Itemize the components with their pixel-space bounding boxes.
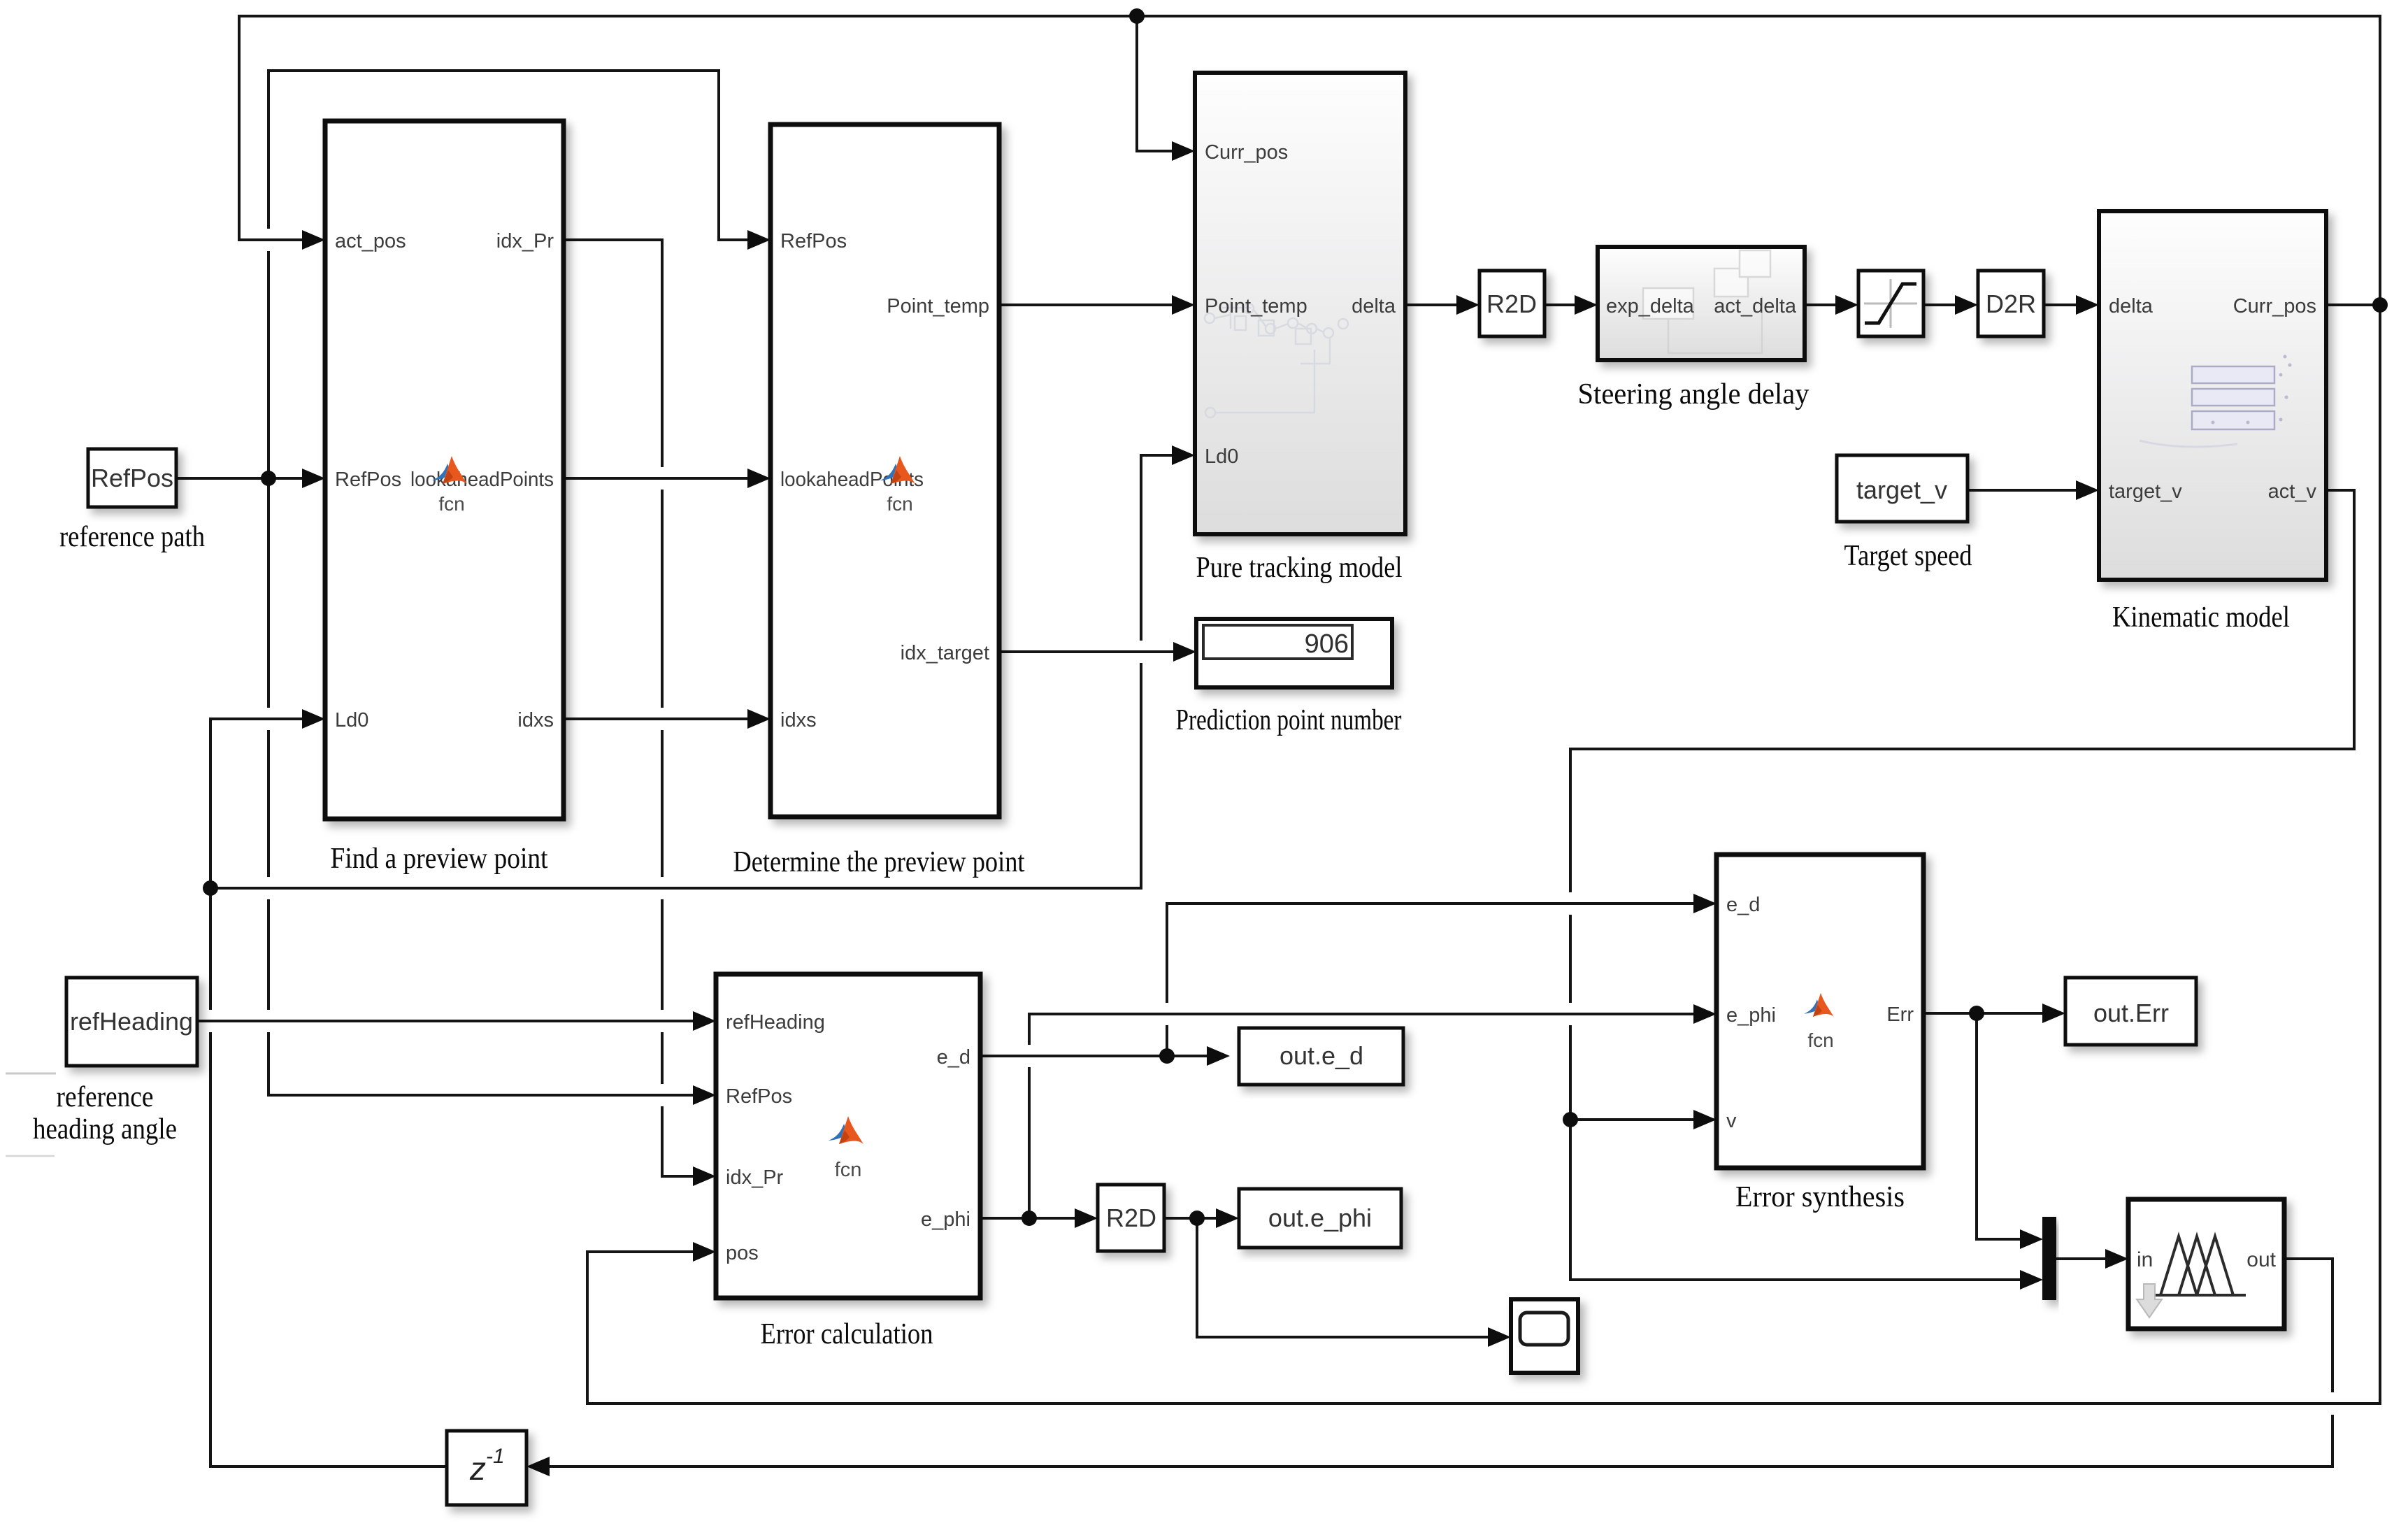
svg-text:target_v: target_v <box>2109 480 2182 503</box>
svg-text:idx_Pr: idx_Pr <box>496 230 554 252</box>
svg-text:heading angle: heading angle <box>33 1113 177 1145</box>
svg-text:lookaheadPoints: lookaheadPoints <box>410 469 554 491</box>
arrowhead into Mux input 1 <box>2020 1229 2043 1249</box>
stray gray line 1 <box>6 1073 56 1075</box>
block Error synthesis <box>1717 855 1923 1168</box>
stray gray line 2 <box>6 1155 55 1157</box>
arrowhead into z-1 <box>526 1457 550 1476</box>
wire lookaheadPoints Find to Determine <box>564 477 753 480</box>
wire Mux to Fuzzy controller <box>2056 1257 2111 1260</box>
block R2D 2 <box>1098 1185 1164 1251</box>
svg-text:idxs: idxs <box>517 709 554 731</box>
arrowhead into Kinematic target_v <box>2076 480 2099 500</box>
svg-text:v: v <box>1726 1110 1737 1132</box>
wire z-1 output to Find Ld0 <box>210 719 447 1466</box>
svg-text:Error synthesis: Error synthesis <box>1735 1181 1905 1213</box>
arrowhead into Find Ld0 <box>302 709 325 729</box>
wire Fuzzy out feedback to z-1 <box>544 1259 2332 1466</box>
svg-text:pos: pos <box>726 1242 759 1264</box>
block refHeading source <box>66 978 197 1066</box>
svg-text:out: out <box>2246 1248 2276 1271</box>
svg-text:idx_target: idx_target <box>901 642 989 664</box>
scope inner screen <box>1520 1313 1568 1345</box>
block out.e_d <box>1239 1028 1403 1085</box>
arrowhead into Display <box>1173 642 1196 662</box>
wire act_v feedback from Kinematic to v and mux <box>1570 490 2354 1280</box>
junction Ld0 branch <box>203 880 218 896</box>
svg-text:Ld0: Ld0 <box>335 709 368 731</box>
wire e_d to out.e_d <box>980 1055 1212 1057</box>
arrowhead into Steering angle delay <box>1575 295 1598 315</box>
svg-text:RefPos: RefPos <box>780 230 847 252</box>
wire e_d branch up to Error synthesis e_d <box>1167 904 1699 1056</box>
block Display prediction point number <box>1196 619 1392 687</box>
arrowhead into Error synthesis e_d <box>1693 894 1717 913</box>
arrowhead into Fuzzy in <box>2105 1249 2128 1269</box>
wire Saturation to D2R <box>1923 304 1961 306</box>
svg-text:fcn: fcn <box>835 1159 862 1181</box>
wire delta Pure tracking to R2D <box>1405 304 1462 306</box>
arrowhead into D2R <box>1955 295 1978 315</box>
junction e_phi branch <box>1022 1211 1037 1226</box>
junction Err branch <box>1969 1006 1984 1021</box>
svg-text:Pure tracking model: Pure tracking model <box>1196 552 1403 584</box>
block target_v source <box>1837 455 1968 522</box>
arrowhead into Error calculation refHeading <box>693 1011 716 1031</box>
wire crossing gaps <box>265 229 272 251</box>
ghost subsystem sketch Pure tracking <box>1205 301 1348 417</box>
wire R2D to out.e_phi <box>1164 1217 1221 1220</box>
svg-text:refHeading: refHeading <box>726 1011 825 1034</box>
wire Point_temp Determine to Pure tracking <box>999 304 1177 306</box>
svg-text:out.Err: out.Err <box>2093 999 2169 1027</box>
svg-text:Determine the preview point: Determine the preview point <box>733 846 1025 878</box>
arrowhead into Error calculation pos <box>693 1242 716 1262</box>
block out.Err <box>2065 978 2196 1045</box>
svg-text:Ld0: Ld0 <box>1205 445 1238 468</box>
arrowhead into out.Err <box>2042 1004 2065 1023</box>
svg-text:Err: Err <box>1886 1004 1914 1026</box>
svg-text:fcn: fcn <box>1807 1029 1833 1051</box>
block Fuzzy logic controller <box>2128 1199 2284 1329</box>
wire e_phi to R2D <box>980 1217 1080 1220</box>
arrowhead into Error synthesis v <box>1693 1110 1717 1129</box>
wire idx_target Determine to Display <box>999 650 1179 653</box>
fuzzy membership triangles <box>2155 1236 2246 1295</box>
svg-text:idx_Pr: idx_Pr <box>726 1166 784 1189</box>
ghost subsystem sketch Kinematic <box>2192 366 2274 429</box>
block Saturation <box>1858 271 1923 336</box>
svg-text:R2D: R2D <box>1106 1204 1156 1232</box>
block Kinematic model <box>2099 211 2326 580</box>
svg-text:Kinematic model: Kinematic model <box>2112 601 2290 634</box>
block Scope <box>1511 1299 1578 1373</box>
arrowhead into Pure tracking Curr_pos <box>1172 141 1195 161</box>
arrowhead into R2D 2 <box>1075 1208 1098 1228</box>
wire Err to out.Err <box>1923 1012 2048 1015</box>
svg-text:R2D: R2D <box>1486 290 1537 318</box>
block Mux bar <box>2043 1218 2056 1299</box>
arrowhead into Pure tracking Point_temp <box>1172 295 1195 315</box>
arrowhead into Scope <box>1488 1327 1511 1347</box>
svg-text:RefPos: RefPos <box>91 464 173 492</box>
svg-text:idxs: idxs <box>780 709 817 731</box>
arrowhead into Error calculation RefPos <box>693 1085 716 1105</box>
junction act_v to v <box>1563 1112 1578 1127</box>
svg-text:Point_temp: Point_temp <box>1205 295 1307 317</box>
wire Mux output stub <box>2056 1257 2111 1260</box>
block z-1 unit delay <box>447 1431 526 1505</box>
wire RefPos branch up to Determine RefPos <box>268 71 753 478</box>
wire Curr_pos feedback down right side to pos input <box>587 305 2380 1404</box>
fcn logo Determine <box>880 456 915 484</box>
wire D2R to Kinematic delta <box>2044 304 2081 306</box>
ghost subsystem sketch Steering delay <box>1643 250 1770 353</box>
svg-text:Point_temp: Point_temp <box>887 295 989 317</box>
wire feedback Curr_pos top loop (Kinematic Curr_pos to act_pos) <box>239 16 2380 305</box>
arrowhead into Determine RefPos <box>747 230 771 250</box>
wire branch e_phi deg down to Scope <box>1197 1218 1493 1337</box>
arrowhead into out.e_d <box>1207 1046 1230 1066</box>
svg-text:delta: delta <box>1352 295 1396 317</box>
svg-text:in: in <box>2137 1248 2153 1271</box>
svg-text:RefPos: RefPos <box>335 469 401 491</box>
svg-text:e_d: e_d <box>937 1046 970 1069</box>
junction e_d branch <box>1159 1048 1175 1064</box>
arrowhead into Kinematic delta <box>2076 295 2099 315</box>
svg-text:act_delta: act_delta <box>1714 295 1797 317</box>
wire Steering angle delay to Saturation <box>1805 304 1841 306</box>
fcn logo Find <box>432 456 467 484</box>
svg-text:refHeading: refHeading <box>70 1007 193 1036</box>
wire branch act_v to Error synthesis v input <box>1570 1118 1699 1121</box>
svg-text:out.e_phi: out.e_phi <box>1268 1204 1372 1232</box>
svg-text:out.e_d: out.e_d <box>1280 1041 1363 1070</box>
arrowhead into Saturation <box>1835 295 1858 315</box>
wire crossing horizontals <box>252 238 285 241</box>
block R2D rad to deg <box>1479 271 1545 336</box>
svg-text:act_v: act_v <box>2268 480 2317 503</box>
svg-text:Curr_pos: Curr_pos <box>1205 141 1288 164</box>
display cursor <box>1352 628 1354 656</box>
svg-text:Target speed: Target speed <box>1844 540 1972 572</box>
arrowhead into R2D <box>1456 295 1479 315</box>
svg-text:e_phi: e_phi <box>921 1208 970 1231</box>
svg-text:exp_delta: exp_delta <box>1606 295 1695 317</box>
svg-text:RefPos: RefPos <box>726 1085 792 1108</box>
svg-text:D2R: D2R <box>1986 290 2036 318</box>
wire RefPos source to Find RefPos <box>176 477 308 480</box>
wire RefPos branch down to Error calculation RefPos <box>268 478 698 1095</box>
junction Curr_pos output <box>2372 297 2388 313</box>
svg-text:delta: delta <box>2109 295 2153 317</box>
arrowhead into Determine idxs <box>747 709 771 729</box>
svg-text:Steering angle delay: Steering angle delay <box>1578 378 1809 410</box>
svg-text:Curr_pos: Curr_pos <box>2233 295 2316 317</box>
junction e_phi deg branch <box>1189 1211 1205 1226</box>
block Error calculation <box>716 974 980 1298</box>
arrowhead into Find act_pos <box>302 230 325 250</box>
block D2R deg to rad <box>1978 271 2044 336</box>
wire branch top loop down to Pure tracking Curr_pos <box>1137 16 1177 151</box>
junction RefPos branch <box>261 471 276 486</box>
svg-text:Error calculation: Error calculation <box>761 1318 933 1350</box>
fcn logo Error synthesis <box>1804 993 1834 1017</box>
block Pure tracking model <box>1195 73 1405 534</box>
wire e_phi branch up to Error synthesis e_phi <box>1029 1014 1699 1218</box>
block Steering angle delay <box>1598 247 1805 360</box>
svg-text:e_d: e_d <box>1726 894 1760 916</box>
arrowhead into Error synthesis e_phi <box>1693 1004 1717 1024</box>
wire refHeading to Error calculation <box>197 1020 698 1022</box>
block out.e_phi <box>1239 1189 1401 1248</box>
fuzzy gray down arrow <box>2137 1284 2162 1318</box>
svg-text:z: z <box>469 1450 486 1487</box>
wire branch Err down to Mux input 1 <box>1977 1013 2026 1239</box>
arrowhead into Determine lookaheadPoints <box>747 469 771 488</box>
block Find a preview point <box>325 121 564 819</box>
arrowhead into Find RefPos <box>302 469 325 488</box>
arrowhead into Pure tracking Ld0 <box>1172 445 1195 465</box>
svg-text:reference path: reference path <box>59 521 205 553</box>
svg-text:Find a preview point: Find a preview point <box>331 843 548 875</box>
svg-text:-1: -1 <box>486 1445 505 1468</box>
wire idx_Pr from Find to Error calculation idx_Pr <box>564 240 698 1176</box>
wire target_v to Kinematic <box>1968 489 2081 492</box>
display inner box <box>1203 625 1352 659</box>
svg-text:reference: reference <box>57 1081 154 1113</box>
svg-text:906: 906 <box>1305 629 1349 659</box>
wire idxs Find to Determine <box>564 717 753 720</box>
svg-text:fcn: fcn <box>887 493 912 515</box>
svg-text:fcn: fcn <box>438 493 464 515</box>
svg-text:act_pos: act_pos <box>335 230 406 252</box>
fcn logo Error calculation <box>829 1116 863 1144</box>
wire R2D to Steering angle delay <box>1545 304 1580 306</box>
junction top loop to Curr_pos input <box>1129 8 1145 24</box>
svg-text:e_phi: e_phi <box>1726 1004 1776 1027</box>
arrowhead into Error calculation idx_Pr <box>693 1166 716 1186</box>
arrowhead into Mux input 2 <box>2020 1270 2043 1290</box>
block Determine the preview point <box>771 124 999 817</box>
block RefPos source <box>88 449 176 507</box>
wire branch Ld0 to Pure tracking Ld0 <box>210 455 1177 888</box>
svg-text:Prediction point number: Prediction point number <box>1176 704 1402 736</box>
arrowhead into out.e_phi <box>1216 1208 1239 1228</box>
saturation icon curve <box>1865 284 1916 323</box>
saturation icon axes <box>1864 279 1917 328</box>
svg-text:target_v: target_v <box>1856 476 1947 504</box>
